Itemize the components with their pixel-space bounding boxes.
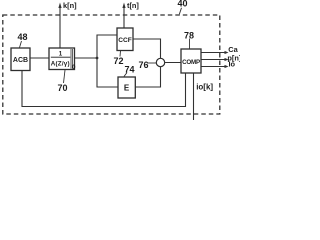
svg-text:E: E [124, 83, 130, 92]
svg-text:74: 74 [124, 65, 134, 75]
svg-text:40: 40 [177, 0, 187, 9]
svg-text:76: 76 [138, 60, 148, 70]
svg-text:70: 70 [57, 83, 67, 93]
svg-text:A(Z/γ): A(Z/γ) [51, 61, 70, 68]
svg-text:78: 78 [184, 30, 194, 40]
svg-text:1: 1 [59, 51, 63, 58]
svg-text:ACB: ACB [13, 57, 28, 64]
svg-text:48: 48 [17, 32, 27, 42]
svg-text:COMP: COMP [182, 59, 200, 66]
svg-text:72: 72 [113, 56, 123, 66]
svg-text:t[n]: t[n] [127, 1, 139, 10]
svg-text:CCF: CCF [118, 37, 132, 44]
svg-text:io[k]: io[k] [196, 83, 213, 92]
svg-text:k[n]: k[n] [63, 1, 77, 10]
svg-text:Io: Io [229, 60, 236, 69]
